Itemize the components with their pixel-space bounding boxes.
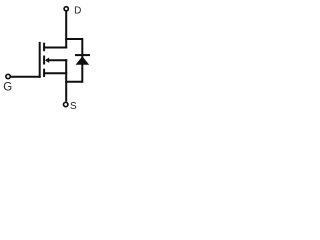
svg-text:G: G: [3, 81, 12, 93]
svg-text:D: D: [74, 5, 81, 16]
svg-text:S: S: [70, 101, 77, 112]
